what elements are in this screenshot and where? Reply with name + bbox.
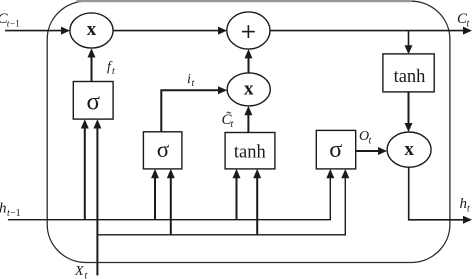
- svg-text:−1: −1: [10, 208, 21, 219]
- multiplier x1: [70, 13, 113, 48]
- svg-text:t: t: [231, 119, 234, 130]
- svg-text:h: h: [0, 201, 7, 217]
- svg-text:t: t: [467, 19, 470, 30]
- label ht: [460, 196, 471, 215]
- label Xt: [74, 264, 88, 279]
- label ht-1: [0, 201, 21, 220]
- wire x2 up to plus: [245, 49, 253, 73]
- wire sigma1 up to x1 (ft): [88, 48, 96, 81]
- gate tanh2 (cell output): [383, 54, 434, 92]
- svg-text:t: t: [192, 78, 195, 89]
- label Ct: [457, 11, 470, 30]
- svg-text:x: x: [404, 139, 414, 160]
- wire x1 to plus: [113, 27, 227, 35]
- wire tanh2 down to x3: [405, 92, 413, 132]
- svg-text:t: t: [85, 271, 88, 279]
- wire sigma2 right input from Xt bus: [167, 169, 175, 235]
- adder plus: [227, 12, 270, 49]
- wire tanh1 up to x2 (Ct~): [244, 106, 252, 133]
- label Ot: [359, 129, 372, 147]
- svg-text:t: t: [369, 136, 372, 147]
- multiplier x2: [227, 73, 270, 106]
- gate sigma3 (output): [316, 130, 355, 169]
- wire plus to Ct output arrow: [270, 27, 472, 35]
- label Ct-1: [0, 11, 20, 30]
- svg-text:X: X: [74, 264, 84, 279]
- svg-text:tanh: tanh: [234, 143, 266, 163]
- wire branch down to tanh2: [405, 31, 413, 55]
- gate sigma1 (forget): [73, 82, 113, 120]
- gate sigma2 (input): [143, 132, 182, 169]
- wire sigma1 left input from ht-1 bus: [81, 119, 89, 220]
- wire sigma3 left input arrowhead: [326, 169, 334, 178]
- label it: [187, 72, 195, 89]
- wire sigma3 right to x3 (Ot): [356, 147, 387, 155]
- wire x3 down and right to ht output: [409, 167, 472, 224]
- cell boundary rounded rectangle: [47, 1, 450, 262]
- wire sigma2 up right to x2 (it): [161, 86, 227, 132]
- svg-text:σ: σ: [86, 89, 100, 116]
- wire tanh1 left input from ht-1 bus: [233, 169, 241, 220]
- label ft: [107, 60, 115, 78]
- wire Xt bus: [97, 176, 345, 235]
- svg-text:−1: −1: [10, 20, 20, 30]
- svg-text:t: t: [467, 204, 470, 215]
- gate tanh1 (candidate): [225, 133, 275, 169]
- wire Xt vertical input: [93, 119, 101, 275]
- label Ct~ tilde: [222, 111, 234, 130]
- gray top border segment: [77, 0, 413, 2]
- wire Ct-1 input arrow: [5, 27, 70, 35]
- wire ht-1 bus: [8, 176, 330, 220]
- svg-text:σ: σ: [329, 137, 342, 163]
- svg-text:x: x: [87, 19, 97, 40]
- svg-text:σ: σ: [157, 137, 170, 162]
- svg-text:tanh: tanh: [394, 67, 426, 87]
- svg-text:t: t: [112, 66, 115, 77]
- wire sigma3 right input arrowhead: [341, 169, 349, 178]
- svg-text:h: h: [460, 196, 468, 212]
- multiplier x3: [387, 132, 431, 167]
- svg-text:i: i: [187, 72, 191, 87]
- wire sigma2 left input from ht-1 bus: [151, 169, 159, 220]
- wire tanh1 right input from Xt bus: [253, 169, 261, 235]
- svg-text:x: x: [244, 78, 254, 99]
